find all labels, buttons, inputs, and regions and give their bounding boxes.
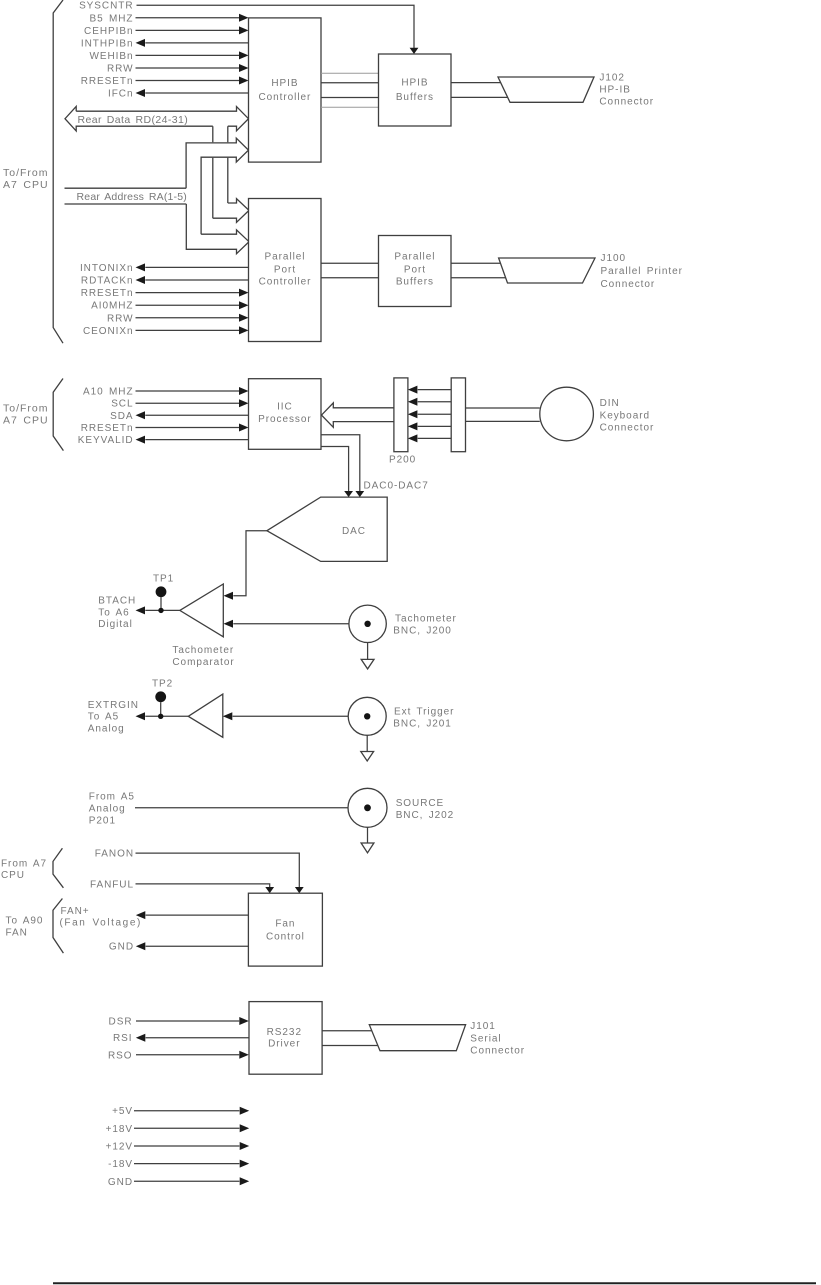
svg-text:IIC: IIC: [277, 401, 293, 412]
svg-text:DIN: DIN: [600, 398, 620, 409]
svg-text:HPIB: HPIB: [271, 78, 298, 89]
svg-text:A7 CPU: A7 CPU: [3, 179, 49, 191]
svg-text:+5V: +5V: [112, 1106, 133, 1117]
wire SCL: [111, 399, 248, 410]
wire A10 MHZ: [83, 387, 248, 398]
label Tachometer BNC J200: [393, 613, 456, 636]
wire pair P200 to DIN connector: [466, 408, 540, 421]
svg-text:FANFUL: FANFUL: [90, 879, 134, 890]
svg-text:HPIB: HPIB: [401, 77, 428, 88]
svg-text:RRESETn: RRESETn: [81, 288, 134, 299]
label From A5 Analog P201: [89, 792, 135, 827]
connector Ext Trigger BNC J201: [348, 697, 386, 735]
wire SYSCNTR: [79, 1, 418, 54]
connector P200 bar 1: [394, 378, 408, 452]
svg-text:Keyboard: Keyboard: [600, 411, 650, 422]
svg-text:DAC: DAC: [342, 526, 366, 537]
ground (J201): [361, 735, 374, 761]
svg-text:CPU: CPU: [1, 870, 25, 881]
svg-text:CEHPIBn: CEHPIBn: [84, 26, 133, 37]
block Fan Control: [248, 893, 322, 966]
keyboard signal arrows between P200 bars: [408, 386, 451, 443]
bus Rear Address RA(1-5): [65, 188, 188, 204]
wire Tachometer BNC to comparator: [224, 620, 349, 628]
svg-text:FANON: FANON: [95, 849, 134, 860]
svg-text:Port: Port: [404, 265, 426, 276]
svg-text:Rear Address RA(1-5): Rear Address RA(1-5): [77, 191, 188, 203]
wire WEHIBn: [89, 51, 248, 62]
bus DAC0-DAC7 from IIC to DAC: [321, 435, 429, 497]
wire INTONIXn: [80, 263, 249, 274]
svg-text:Connector: Connector: [601, 279, 656, 290]
test point TP1: [153, 574, 174, 611]
ground (J200): [361, 643, 374, 669]
svg-text:BNC, J202: BNC, J202: [396, 810, 455, 821]
svg-text:Tachometer: Tachometer: [395, 613, 457, 624]
wire RSI: [113, 1033, 249, 1044]
svg-text:To/From: To/From: [3, 403, 49, 415]
bracket To/From A7 CPU (IIC): [53, 379, 63, 451]
op-amp U1 tachometer comparator: [180, 584, 224, 637]
svg-text:Buffers: Buffers: [396, 277, 434, 288]
label J100 Parallel Printer Connector: [601, 253, 683, 290]
svg-text:Parallel: Parallel: [265, 252, 306, 263]
svg-text:Controller: Controller: [259, 277, 312, 288]
svg-text:Ext Trigger: Ext Trigger: [394, 706, 454, 717]
svg-text:DAC0-DAC7: DAC0-DAC7: [364, 481, 429, 492]
svg-text:BTACH: BTACH: [98, 596, 136, 607]
svg-text:RSO: RSO: [108, 1050, 133, 1061]
svg-text:Parallel Printer: Parallel Printer: [601, 266, 683, 277]
wire INTHPIBn: [81, 38, 249, 49]
svg-text:Processor: Processor: [258, 414, 312, 425]
svg-text:Serial: Serial: [470, 1033, 501, 1044]
svg-text:Tachometer: Tachometer: [172, 645, 234, 656]
svg-text:FAN: FAN: [6, 928, 28, 939]
svg-text:J101: J101: [470, 1021, 496, 1032]
svg-text:Connector: Connector: [599, 97, 654, 108]
svg-text:+18V: +18V: [106, 1124, 133, 1135]
svg-text:Rear Data RD(24-31): Rear Data RD(24-31): [78, 114, 189, 126]
svg-text:Parallel: Parallel: [394, 252, 435, 263]
svg-text:J102: J102: [599, 73, 625, 84]
wire RRW (parallel): [107, 313, 249, 324]
label From A7 CPU: [1, 859, 47, 882]
block Parallel Port Buffers: [379, 236, 452, 307]
wire FANON: [95, 849, 304, 894]
wire pair HPIB Buffers to J102: [451, 83, 509, 98]
wire pair HPIB Controller to HPIB Buffers: [321, 83, 379, 98]
label SOURCE BNC J202: [396, 798, 455, 821]
wire GND supply: [108, 1177, 249, 1188]
wire SDA: [110, 411, 248, 422]
svg-text:Analog: Analog: [89, 804, 126, 815]
svg-text:TP2: TP2: [152, 679, 173, 690]
wire pair Parallel Controller to Parallel Buffers: [321, 263, 379, 278]
wire From A5 to SOURCE BNC: [135, 807, 348, 809]
label Tachometer Comparator: [172, 645, 234, 668]
block IIC Processor: [249, 379, 322, 450]
bus channel Rear Data down: [213, 126, 228, 218]
bus arrow 4 Rear Address to Parallel Port Controller: [186, 204, 249, 254]
svg-text:Connector: Connector: [600, 423, 655, 434]
svg-text:To A6: To A6: [98, 607, 129, 618]
connector DIN Keyboard circle: [540, 387, 594, 441]
label BTACH To A6 Digital: [98, 596, 136, 631]
bus arrow 3 Rear Data to Parallel Port Controller: [213, 199, 249, 223]
wire RRW: [107, 64, 249, 75]
svg-text:Control: Control: [266, 932, 305, 943]
label J101 Serial Connector: [470, 1021, 525, 1057]
bracket From A7 CPU (fan): [53, 848, 63, 888]
wire Ext Trigger BNC to comparator: [223, 712, 348, 720]
svg-text:SOURCE: SOURCE: [396, 798, 444, 809]
label Ext Trigger BNC J201: [393, 706, 454, 729]
wire FAN+ (Fan Voltage): [60, 906, 249, 929]
wire +12V supply: [106, 1142, 250, 1153]
svg-text:To A5: To A5: [88, 712, 119, 723]
svg-text:RDTACKn: RDTACKn: [81, 276, 134, 287]
wire RRESETn (IIC): [81, 423, 249, 434]
svg-text:FAN+: FAN+: [61, 906, 90, 917]
svg-text:Digital: Digital: [98, 619, 132, 630]
svg-text:RRW: RRW: [107, 313, 134, 324]
connector Tachometer BNC J200: [349, 605, 386, 642]
label J102 HP-IB Connector: [599, 73, 654, 108]
wire AI0MHZ: [91, 301, 248, 312]
block HPIB Controller: [249, 18, 322, 162]
svg-text:Buffers: Buffers: [396, 92, 434, 103]
svg-text:Fan: Fan: [275, 918, 295, 929]
label To A90 FAN: [6, 916, 44, 939]
svg-text:DSR: DSR: [109, 1017, 133, 1028]
wire pair RS232 Driver to J101: [322, 1031, 380, 1046]
wire -18V supply: [108, 1159, 249, 1170]
svg-text:SDA: SDA: [110, 411, 133, 422]
svg-text:P200: P200: [389, 455, 416, 466]
svg-text:AI0MHZ: AI0MHZ: [91, 301, 133, 312]
bracket To A90 FAN: [53, 899, 63, 954]
svg-text:RRESETn: RRESETn: [81, 423, 134, 434]
svg-text:RS232: RS232: [267, 1027, 302, 1038]
ground (J202): [361, 827, 374, 853]
svg-text:RRESETn: RRESETn: [81, 76, 134, 87]
wire +5V supply: [112, 1106, 249, 1117]
svg-text:B5 MHZ: B5 MHZ: [90, 13, 134, 24]
svg-text:From A5: From A5: [89, 792, 135, 803]
connector J100 trapezoid: [499, 258, 595, 283]
svg-text:BNC, J201: BNC, J201: [393, 718, 452, 729]
bus arrow 2 Rear Address to HPIB Controller: [186, 138, 248, 234]
svg-text:TP1: TP1: [153, 574, 174, 585]
label DIN Keyboard Connector: [600, 398, 655, 434]
svg-text:Controller: Controller: [258, 92, 311, 103]
svg-text:Port: Port: [274, 265, 296, 276]
wire DAC output to tachometer comparator: [224, 531, 267, 600]
wire GND (fan): [109, 942, 248, 953]
wire pair Parallel Buffers to J100: [451, 263, 507, 278]
wire KEYVALID: [78, 435, 249, 446]
label To/From A7 CPU (top): [3, 167, 49, 191]
svg-text:A7 CPU: A7 CPU: [3, 415, 49, 427]
svg-text:HP-IB: HP-IB: [599, 84, 630, 95]
svg-text:Comparator: Comparator: [172, 657, 234, 668]
svg-text:INTONIXn: INTONIXn: [80, 263, 134, 274]
svg-text:-18V: -18V: [108, 1159, 133, 1170]
svg-text:From A7: From A7: [1, 859, 47, 870]
svg-text:J100: J100: [601, 253, 627, 264]
label To/From A7 CPU (IIC): [3, 403, 49, 427]
svg-text:P201: P201: [89, 815, 116, 826]
svg-text:WEHIBn: WEHIBn: [89, 51, 133, 62]
label EXTRGIN To A5 Analog: [88, 700, 139, 735]
svg-text:KEYVALID: KEYVALID: [78, 435, 134, 446]
svg-text:Connector: Connector: [470, 1046, 525, 1057]
wire RSO: [108, 1050, 249, 1061]
svg-text:CEONIXn: CEONIXn: [83, 326, 134, 337]
svg-text:IFCn: IFCn: [108, 89, 133, 100]
connector J101 trapezoid: [369, 1025, 465, 1051]
svg-text:RRW: RRW: [107, 64, 134, 75]
wire CEONIXn: [83, 326, 249, 337]
hollow arrow keyboard bus into IIC Processor: [322, 403, 394, 427]
block DAC pentagon: [267, 497, 387, 561]
svg-text:INTHPIBn: INTHPIBn: [81, 38, 134, 49]
svg-text:SYSCNTR: SYSCNTR: [79, 1, 133, 12]
block RS232 Driver: [249, 1002, 322, 1075]
svg-text:BNC, J200: BNC, J200: [393, 626, 452, 637]
svg-text:EXTRGIN: EXTRGIN: [88, 700, 139, 711]
svg-text:+12V: +12V: [106, 1142, 133, 1153]
bus Rear Data RD(24-31): [65, 106, 249, 131]
footer rule: [53, 1282, 816, 1284]
block HPIB Buffers: [379, 54, 452, 126]
wire BTACH output: [136, 606, 180, 614]
connector SOURCE BNC J202: [348, 788, 387, 827]
svg-text:Driver: Driver: [268, 1039, 300, 1050]
wire CEHPIBn: [84, 26, 248, 37]
svg-text:GND: GND: [108, 1177, 133, 1188]
wire RDTACKn: [81, 276, 249, 287]
svg-text:To A90: To A90: [6, 916, 44, 927]
svg-text:Analog: Analog: [88, 723, 125, 734]
test point TP2: [152, 679, 173, 717]
svg-text:(Fan Voltage): (Fan Voltage): [60, 918, 142, 929]
svg-text:RSI: RSI: [113, 1033, 133, 1044]
svg-text:A10 MHZ: A10 MHZ: [83, 387, 133, 398]
op-amp U2 ext trigger comparator: [188, 694, 223, 737]
connector J102 trapezoid: [498, 77, 594, 102]
wire RRESETn: [81, 76, 249, 87]
svg-text:To/From: To/From: [3, 167, 49, 179]
wire B5 MHZ: [90, 13, 249, 24]
svg-text:GND: GND: [109, 942, 134, 953]
wire DSR: [109, 1017, 249, 1028]
wire +18V supply: [106, 1124, 250, 1135]
wire FANFUL: [90, 879, 274, 893]
wire RRESETn (parallel): [81, 288, 249, 299]
svg-text:SCL: SCL: [111, 399, 133, 410]
wire EXTRGIN output: [136, 712, 189, 720]
block Parallel Port Controller: [249, 199, 322, 342]
bracket To/From A7 CPU (top): [53, 0, 63, 343]
connector P200 bar 2: [451, 378, 465, 452]
faint bus rails HPIB gap: [321, 73, 379, 107]
wire IFCn: [108, 89, 248, 100]
